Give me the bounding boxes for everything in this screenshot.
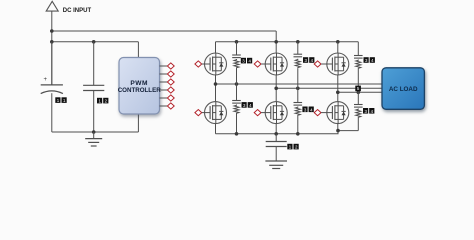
transistor Q3 [327, 53, 349, 75]
svg-text:+: + [44, 77, 48, 83]
wire: feed drop to bridge rail [275, 31, 277, 53]
snubber resistor R5 [295, 107, 300, 134]
ground (bridge) [265, 161, 287, 169]
wire: phase B line [276, 87, 382, 89]
transistor Q4 [205, 102, 227, 124]
gate connector Q2 [254, 61, 265, 67]
wire: phase C line [338, 91, 382, 93]
wire: Q3 drain drop [337, 42, 339, 53]
node: snubber 2 top [296, 40, 300, 44]
node: bulk cap top [274, 132, 278, 136]
label C1 [55, 97, 66, 103]
svg-text:DC INPUT: DC INPUT [63, 8, 92, 14]
wire: Q6 source drop [337, 124, 339, 131]
transistor Q6 [327, 102, 349, 124]
node: phase B / snubber2 [296, 87, 300, 91]
node: Q3 drain [336, 40, 340, 44]
snubber resistor R3 [356, 60, 361, 93]
node: stem/left rail junction [50, 40, 54, 44]
wire: PWM ground riser [137, 114, 139, 132]
node: C2 top junction [92, 40, 96, 44]
snubber resistor R4 [234, 105, 239, 134]
node: phase C / Q3 [336, 91, 340, 95]
node: snubber2 bottom [296, 132, 300, 136]
PWM output connector diamonds [167, 63, 174, 109]
label R6/C8 [363, 108, 374, 114]
wire: phase C vertical [337, 75, 339, 102]
node: phase C / snubber3 [357, 91, 361, 95]
PWM output pins [160, 66, 168, 106]
AC LOAD block [382, 68, 424, 110]
label node B [355, 86, 361, 92]
capacitor C1 (polarized bulk) [41, 42, 63, 132]
svg-text:AC LOAD: AC LOAD [389, 86, 418, 93]
wire: top feed rail [52, 30, 276, 32]
snubber capacitor C6 [232, 84, 241, 103]
transistor Q2 [265, 53, 287, 75]
label R3/C5 [364, 57, 375, 63]
node: stem/top rail junction [50, 29, 54, 33]
transistor Q1 [205, 53, 227, 75]
wire: DC input stem [51, 11, 53, 85]
wire: left distribution rail [52, 41, 139, 43]
snubber capacitor C4 [294, 42, 303, 57]
wire: phase A vertical [215, 75, 217, 102]
snubber resistor R2 [295, 59, 300, 89]
node: snubber 1 top [235, 40, 239, 44]
node: phase B / Q2 [274, 87, 278, 91]
gate connector Q1 [195, 61, 205, 67]
svg-text:PWM: PWM [130, 80, 148, 87]
bulk capacitor C9 [266, 134, 287, 161]
label C9 [287, 144, 298, 150]
snubber capacitor C5 [354, 42, 363, 58]
label R1/C3 [241, 58, 252, 64]
DC input terminal symbol [46, 1, 58, 11]
snubber resistor R1 [234, 59, 239, 84]
wire: bottom rail [216, 131, 359, 134]
gate connector Q5 [254, 110, 265, 116]
label R5/C7 [302, 107, 313, 113]
wire: bridge top rail [216, 41, 359, 43]
capacitor C2 [83, 42, 104, 132]
wire: Q5 source drop [275, 124, 277, 134]
ground (left) [85, 132, 102, 146]
node: C2/ground junction [92, 130, 96, 134]
svg-text:CONTROLLER: CONTROLLER [118, 87, 161, 94]
node: feed/bridge junction [274, 40, 278, 44]
transistor Q5 [265, 102, 287, 124]
wire: phase A line [216, 83, 383, 85]
gate connector Q4 [195, 110, 205, 116]
label R4/C6 [242, 102, 253, 108]
PWM controller U1 [118, 58, 161, 115]
wire: phase B vertical [275, 75, 277, 102]
node: snubber1 bottom [235, 132, 239, 136]
wire: PWM supply drop [137, 42, 139, 58]
wire: Q1 drain drop [215, 42, 217, 53]
gate connector Q6 [314, 110, 327, 116]
snubber capacitor C8 [354, 92, 363, 107]
wire: Q4 source drop [215, 124, 217, 134]
snubber capacitor C3 [232, 42, 241, 58]
wire: left ground rail [52, 131, 139, 133]
label C2 [97, 98, 108, 104]
node: Q6 source [336, 129, 340, 133]
snubber resistor R6 [356, 109, 361, 131]
label R2/C4 [303, 57, 314, 63]
node: phase A / snubber1 [235, 82, 239, 86]
gate connector Q3 [314, 61, 327, 67]
node: phase A / Q1 [214, 82, 218, 86]
snubber capacitor C7 [294, 88, 303, 105]
